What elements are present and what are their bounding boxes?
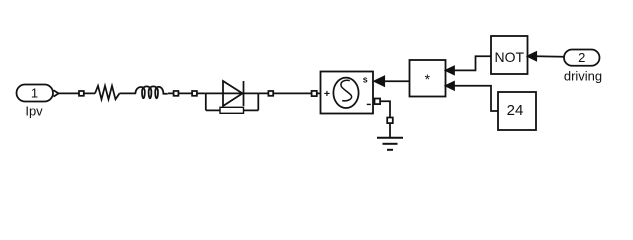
wire product output to current source: [384, 80, 410, 82]
wire constant 24 to product bottom input: [454, 86, 498, 111]
constant block 24: [498, 92, 536, 130]
wire NOT output to product top input: [454, 56, 491, 70]
inport oval 1: [17, 85, 54, 102]
port node square: [268, 91, 273, 96]
svg-text:1: 1: [31, 86, 38, 101]
wire diode branch to current source: [258, 92, 320, 94]
svg-text:2: 2: [578, 50, 585, 65]
arrowhead into NOT input: [528, 52, 536, 60]
inductor Ls: [135, 86, 167, 98]
svg-text:NOT: NOT: [495, 49, 525, 65]
port node square: [312, 91, 317, 96]
product block U2: [410, 60, 446, 97]
resistor Rs: [95, 86, 120, 100]
wire from inport 1 to resistor: [59, 92, 95, 94]
output port triangle of inport 1: [54, 90, 59, 96]
ground symbol: [377, 138, 403, 150]
port node square: [79, 91, 84, 96]
node junction left of diode: [205, 93, 207, 110]
parallel branch wire bottom: [206, 109, 258, 111]
resistor Rsh box: [220, 107, 244, 113]
wire through diode row: [206, 92, 258, 94]
ground stem: [389, 123, 391, 137]
wire inductor to diode branch: [168, 92, 206, 94]
controlled current source U1: [321, 72, 374, 114]
svg-text:+: +: [324, 88, 330, 100]
NOT block: [491, 36, 528, 74]
svg-text:s: s: [363, 74, 368, 84]
inport oval 2: [564, 50, 600, 66]
svg-text:Ipv: Ipv: [25, 103, 43, 118]
current source minus port square: [375, 99, 381, 105]
arrowhead into product top input: [446, 67, 454, 75]
arrowhead into product bottom input: [446, 82, 454, 90]
svg-text:*: *: [425, 71, 431, 87]
wire current source to ground: [380, 101, 390, 117]
port node square: [192, 91, 197, 96]
svg-text:24: 24: [507, 102, 524, 119]
ground port square: [387, 118, 393, 124]
node junction right of diode: [257, 93, 259, 110]
port node square: [174, 91, 179, 96]
wire resistor to inductor: [120, 92, 137, 94]
diode D: [223, 81, 244, 106]
svg-text:driving: driving: [564, 68, 602, 83]
wire inport 2 to NOT: [536, 55, 564, 58]
signal input arrowhead into current source s port: [375, 77, 385, 86]
